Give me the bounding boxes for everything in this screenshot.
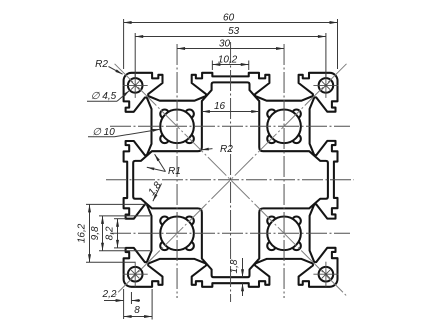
horizontal centerline (profile axis)	[106, 179, 354, 181]
corner hole top-left (diam 4,5)	[128, 78, 143, 93]
core bore top-left (diam 10 with screw flutes)	[160, 110, 194, 144]
center marks of bottom-right corner hole	[313, 262, 338, 287]
core bore top-right (diam 10 with screw flutes)	[267, 110, 301, 144]
vertical centerline left slots	[176, 44, 178, 298]
dimension 8,2 (slot opening width)	[104, 219, 126, 248]
vertical centerline (profile axis)	[230, 42, 232, 302]
diagonal centerline TR-BL	[115, 64, 347, 296]
dimension 16 (web width)	[202, 101, 259, 113]
core bore bottom-left (diam 10 with screw flutes)	[160, 217, 194, 251]
svg-text:16: 16	[214, 101, 226, 112]
svg-text:60: 60	[223, 12, 235, 23]
profile outer contour with T-slots	[124, 73, 338, 287]
dimension 1,8 (bottom wall thickness)	[229, 258, 244, 296]
horizontal centerline lower slots	[110, 232, 350, 234]
svg-text:16,2: 16,2	[77, 223, 88, 243]
radius label R2 (outer corner)	[95, 59, 122, 74]
svg-text:8,2: 8,2	[104, 226, 115, 240]
svg-text:1,8: 1,8	[229, 259, 240, 273]
core bore bottom-right (diam 10 with screw flutes)	[267, 217, 301, 251]
vertical centerline right slots	[283, 44, 285, 298]
diagonal centerline TL-BR	[115, 64, 347, 296]
svg-text:R2: R2	[95, 59, 108, 70]
dimension 16,2 (slot cavity width)	[77, 204, 148, 262]
central plus-shaped cavity	[133, 82, 328, 277]
dimension 8 (corner face width)	[124, 289, 153, 320]
svg-text:9,8: 9,8	[90, 226, 101, 240]
corner hole top-right (diam 4,5)	[319, 78, 334, 93]
svg-text:8: 8	[134, 305, 140, 316]
horizontal centerline upper slots	[110, 125, 350, 127]
svg-text:30: 30	[219, 38, 231, 49]
dimension 10,2 (face groove width)	[212, 54, 248, 70]
center marks of top-right corner hole	[313, 73, 338, 98]
diameter label 4,5 (corner hole)	[87, 90, 130, 102]
svg-text:10,2: 10,2	[218, 54, 238, 65]
dimension 9,8 (slot floor width)	[90, 216, 150, 251]
wall thickness label 1,8 (slot wall)	[146, 180, 163, 201]
svg-text:53: 53	[228, 26, 240, 37]
diameter label 10 (core bore)	[88, 127, 160, 138]
corner hole bottom-right (diam 4,5)	[319, 267, 334, 282]
svg-text:∅ 4,5: ∅ 4,5	[91, 91, 117, 102]
svg-text:R2: R2	[220, 144, 233, 155]
center marks of top-left corner hole	[123, 73, 148, 98]
center marks of bottom-left corner hole	[123, 262, 148, 287]
svg-text:2,2: 2,2	[102, 289, 117, 300]
dimension 2,2 (corner radius offset)	[102, 289, 140, 319]
svg-text:∅ 10: ∅ 10	[92, 127, 115, 138]
radius label R2 (cavity corner)	[201, 144, 233, 155]
svg-text:R1: R1	[168, 166, 181, 177]
radius label R1 (web fillets, two leaders)	[147, 154, 181, 177]
dimension 30 (core spacing)	[177, 38, 284, 50]
corner hole bottom-left (diam 4,5)	[128, 267, 143, 282]
dimension 53 (corner hole spacing)	[135, 26, 326, 79]
dimension 60 (overall width)	[124, 12, 338, 69]
